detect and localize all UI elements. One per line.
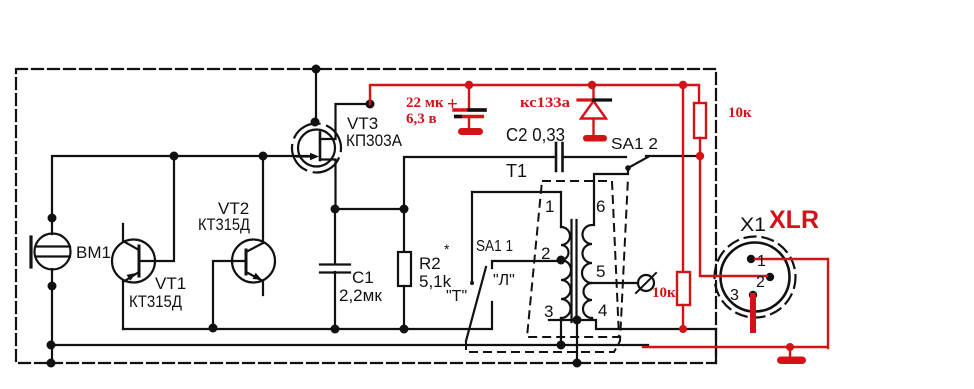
svg-text:4: 4 bbox=[598, 301, 607, 320]
svg-text:10к: 10к bbox=[728, 105, 752, 121]
svg-text:6,3 в: 6,3 в bbox=[406, 111, 437, 127]
svg-text:22 мк: 22 мк bbox=[406, 95, 444, 111]
svg-text:SA1 2: SA1 2 bbox=[611, 136, 658, 153]
svg-text:5: 5 bbox=[596, 262, 605, 281]
svg-text:6: 6 bbox=[596, 197, 605, 216]
svg-text:SA1 1: SA1 1 bbox=[476, 238, 513, 255]
svg-text:BM1: BM1 bbox=[76, 243, 111, 262]
svg-text:+: + bbox=[447, 94, 458, 115]
svg-text:С1: С1 bbox=[352, 268, 374, 287]
svg-text:С2 0,33: С2 0,33 bbox=[506, 125, 565, 145]
svg-text:КТ315Д: КТ315Д bbox=[129, 292, 182, 311]
svg-text:"Т": "Т" bbox=[446, 288, 467, 305]
svg-text:кс133а: кс133а bbox=[520, 95, 571, 111]
svg-text:*: * bbox=[444, 241, 450, 257]
svg-text:2: 2 bbox=[756, 274, 765, 291]
svg-text:X1: X1 bbox=[740, 215, 766, 236]
svg-text:10к: 10к bbox=[652, 285, 676, 301]
svg-text:2: 2 bbox=[541, 244, 550, 263]
svg-text:3: 3 bbox=[544, 302, 553, 321]
svg-text:"Л": "Л" bbox=[493, 272, 515, 289]
svg-text:1: 1 bbox=[757, 253, 766, 270]
svg-text:3: 3 bbox=[730, 287, 739, 304]
svg-text:Т1: Т1 bbox=[506, 161, 527, 181]
svg-text:2,2мк: 2,2мк bbox=[339, 286, 382, 305]
svg-text:R2: R2 bbox=[419, 254, 441, 273]
svg-text:КТ315Д: КТ315Д bbox=[198, 215, 250, 234]
svg-text:1: 1 bbox=[545, 197, 554, 216]
svg-text:КП303А: КП303А bbox=[346, 131, 403, 150]
svg-text:XLR: XLR bbox=[769, 206, 819, 234]
svg-text:VT1: VT1 bbox=[155, 274, 186, 293]
